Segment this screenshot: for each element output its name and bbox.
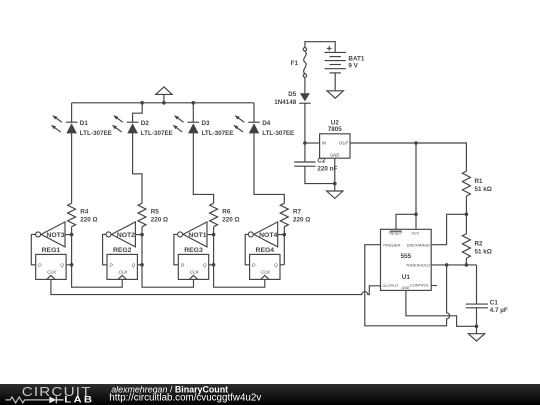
node NOT4 NOT input: [283, 233, 287, 237]
svg-text:VCC: VCC: [411, 231, 419, 236]
node REG1 Q: [70, 263, 74, 267]
node U2 IN: [303, 141, 307, 145]
wire REG1 Q to REG2 CLK: [72, 265, 123, 287]
svg-text:LTL-307EE: LTL-307EE: [202, 130, 234, 137]
svg-text:http://circuitlab.com/cvucggtf: http://circuitlab.com/cvucggtfw4u2v: [109, 393, 261, 404]
wire NOT4 out to D: [245, 234, 249, 264]
node rail-flag: [162, 101, 166, 105]
svg-text:D5: D5: [288, 91, 297, 98]
wire rail to D4: [253, 103, 255, 122]
svg-text:LTL-307EE: LTL-307EE: [262, 130, 294, 137]
flip-flop REG4: [250, 247, 280, 280]
svg-text:REG1: REG1: [42, 247, 61, 254]
inverter NOT1: [178, 222, 207, 247]
wire REG1 Q stub: [66, 264, 72, 266]
node REG2 Q: [140, 263, 144, 267]
flip-flop REG2: [107, 247, 137, 280]
wire BAT1 to ground: [334, 73, 336, 91]
svg-text:TRIGGER: TRIGGER: [383, 242, 401, 247]
ground below BAT1: [327, 91, 343, 98]
svg-text:NOT1: NOT1: [188, 232, 206, 239]
wire rail to D2: [133, 103, 143, 122]
regulator U2 7805: [320, 120, 350, 159]
wire R5 column: [135, 227, 142, 265]
ground below C1: [468, 326, 484, 341]
wire U2 GND stub: [334, 158, 336, 183]
node R1-R2-DISCHARGE: [465, 213, 469, 217]
svg-text:D4: D4: [262, 120, 271, 127]
wire U2 OUT to R1: [350, 143, 466, 171]
svg-text:OUTPUT: OUTPUT: [382, 283, 399, 288]
svg-text:C2: C2: [317, 157, 326, 164]
wire D3 to R6: [193, 133, 213, 203]
wire C1 to ground node: [476, 308, 478, 327]
wire 555 GND to ground: [406, 290, 477, 326]
wire REG2 Q stub: [137, 264, 142, 266]
svg-text:555: 555: [400, 253, 411, 260]
ground below U2: [327, 184, 343, 199]
wire D4 to R7: [254, 133, 284, 203]
wire NOT3 out to D: [31, 234, 35, 264]
svg-text:220 Ω: 220 Ω: [151, 217, 168, 224]
svg-text:F1: F1: [291, 60, 299, 67]
svg-text:U1: U1: [402, 274, 411, 281]
wire NOT1 out to D: [174, 234, 178, 264]
LED D3: [173, 115, 234, 137]
wire R2 to THRESHOLD line: [465, 258, 467, 265]
node U2 GND: [333, 182, 337, 186]
wire REG3 Q to REG4 CLK: [214, 265, 265, 287]
svg-text:1N4148: 1N4148: [274, 99, 297, 106]
footer author line: [111, 384, 228, 394]
node NOT3 NOT input: [70, 233, 74, 237]
wire F1 to D5: [304, 77, 306, 93]
svg-text:R6: R6: [222, 209, 231, 216]
footer bar: [0, 384, 540, 405]
svg-text:220 Ω: 220 Ω: [80, 217, 97, 224]
svg-text:Q: Q: [274, 263, 278, 268]
svg-text:NOT4: NOT4: [259, 232, 277, 239]
svg-text:NOT3: NOT3: [46, 232, 64, 239]
wire REG4 Q stub: [280, 264, 284, 266]
svg-text:R5: R5: [151, 209, 160, 216]
svg-text:CONTROL: CONTROL: [410, 283, 429, 288]
wire D2 to R5: [133, 133, 142, 203]
svg-text:LTL-307EE: LTL-307EE: [141, 130, 173, 137]
wire D5 to U2 IN: [305, 103, 320, 143]
wire F1 to BAT1: [305, 42, 335, 53]
resistor R1 51k: [462, 171, 491, 196]
svg-text:LAB: LAB: [64, 395, 94, 405]
wire REG3 Q stub: [209, 264, 214, 266]
svg-text:9 V: 9 V: [348, 63, 358, 70]
wire rail to D1: [71, 103, 73, 122]
wire C2 to ground node: [305, 166, 335, 183]
node NOT2 NOT input: [140, 233, 144, 237]
wire D1 to R4: [71, 133, 73, 203]
svg-text:THRESHOLD: THRESHOLD: [406, 263, 430, 268]
wire R4 column: [65, 227, 72, 265]
svg-text:D3: D3: [202, 120, 211, 127]
inverter NOT4: [248, 222, 277, 247]
node REG3 Q: [212, 263, 216, 267]
svg-text:DISCHARGE: DISCHARGE: [407, 242, 431, 247]
svg-text:CLK: CLK: [47, 270, 57, 275]
capacitor C1 4.7uF: [466, 299, 508, 314]
battery BAT1 9V: [325, 46, 365, 73]
svg-text:D2: D2: [141, 120, 150, 127]
node THRESHOLD-R2: [465, 263, 469, 267]
svg-text:CLK: CLK: [261, 270, 271, 275]
svg-text:CLK: CLK: [118, 270, 128, 275]
node VCC branch: [414, 213, 418, 217]
wire rail to D3: [192, 103, 194, 122]
svg-text:Q: Q: [132, 263, 136, 268]
svg-text:51 kΩ: 51 kΩ: [475, 248, 492, 255]
svg-text:OUT: OUT: [339, 141, 349, 146]
wire R7 column: [278, 227, 285, 265]
flip-flop REG1: [36, 247, 66, 280]
svg-text:REG2: REG2: [113, 247, 132, 254]
wire R6 column: [207, 227, 214, 265]
svg-text:220 Ω: 220 Ω: [222, 217, 239, 224]
wire R1 to R2: [465, 196, 467, 234]
LED D1: [51, 115, 112, 137]
svg-text:Q: Q: [60, 263, 64, 268]
wire THRESHOLD to C1: [476, 265, 478, 304]
svg-text:GND: GND: [330, 153, 339, 158]
node C1 ground: [475, 325, 479, 329]
svg-text:NOT2: NOT2: [117, 232, 135, 239]
svg-text:Q: Q: [203, 263, 207, 268]
footer url line: [109, 393, 261, 404]
node THRESHOLD-trigger: [445, 263, 449, 267]
svg-text:R1: R1: [475, 178, 484, 185]
node rail-D2: [140, 101, 144, 105]
svg-text:51 kΩ: 51 kΩ: [475, 186, 492, 193]
capacitor C2 220nF: [294, 157, 337, 172]
power rail wire: [72, 102, 254, 104]
CircuitLab logo text LAB: [64, 395, 94, 405]
svg-text:LTL-307EE: LTL-307EE: [80, 130, 112, 137]
resistor R5 220: [138, 203, 168, 226]
svg-text:REG3: REG3: [184, 247, 203, 254]
svg-text:C1: C1: [490, 299, 499, 306]
resistor R6 220: [210, 203, 240, 226]
svg-text:GND: GND: [402, 286, 410, 290]
wire 555 OUTPUT to REG1 CLK: [51, 279, 381, 294]
svg-text:D1: D1: [80, 120, 89, 127]
node rail-D3: [192, 101, 196, 105]
resistor R7 220: [280, 203, 310, 226]
svg-text:REG4: REG4: [256, 247, 275, 254]
wire DISCHARGE: [431, 214, 466, 244]
wire NOT2 out to D: [103, 234, 107, 264]
flip-flop REG3: [178, 247, 208, 280]
CircuitLab logo text CIRCUIT: [22, 384, 92, 399]
svg-text:R7: R7: [293, 209, 302, 216]
timer U1 555: [381, 229, 432, 290]
power flag: [156, 87, 172, 103]
node NOT1 NOT input: [212, 233, 216, 237]
node OUT-VCC tap: [414, 141, 418, 145]
svg-text:220 Ω: 220 Ω: [293, 217, 310, 224]
LED D2: [112, 115, 173, 137]
inverter NOT2: [106, 222, 135, 247]
svg-text:4.7 µF: 4.7 µF: [490, 307, 508, 314]
svg-text:7805: 7805: [328, 126, 343, 133]
diode D5 1N4148: [274, 91, 310, 106]
wire REG2 Q to REG3 CLK: [142, 265, 194, 287]
resistor R4 220: [68, 203, 98, 226]
wire THRESHOLD line: [431, 264, 476, 266]
svg-text:R4: R4: [80, 209, 89, 216]
svg-text:CLK: CLK: [190, 270, 200, 275]
svg-text:R2: R2: [475, 241, 484, 248]
inverter NOT3: [36, 222, 65, 247]
svg-text:BAT1: BAT1: [348, 55, 364, 62]
LED D4: [233, 115, 294, 137]
wire VCC feed: [396, 143, 416, 229]
wire CONTROL stub: [431, 285, 437, 287]
resistor R2 51k: [462, 234, 491, 259]
fuse F1: [291, 48, 307, 78]
wire TRIGGER loop: [365, 245, 450, 326]
CircuitLab logo schematic squiggle: [6, 397, 64, 404]
wire IN to C2: [304, 143, 306, 162]
